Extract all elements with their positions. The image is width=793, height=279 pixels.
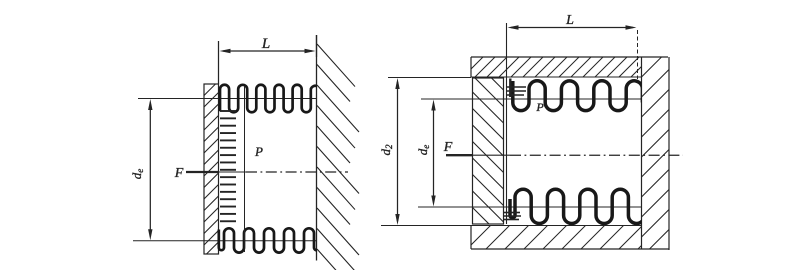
- left figure: fixed wall hatching (ground symbol): [317, 44, 359, 279]
- left figure: force F line onto plate: [186, 171, 219, 173]
- left figure: dimension line d_e with arrowheads: [149, 104, 151, 235]
- left figure: moving plate (piston) outline: [204, 84, 219, 254]
- right figure: housing top band inner (bottom) edge: [471, 76, 642, 78]
- svg-text:P: P: [254, 144, 263, 159]
- left figure: moving plate hatching: [0, 0, 570, 254]
- left figure: lower bellows corrugations: [219, 228, 318, 252]
- right figure: upper bellows clamp dashes: [506, 86, 526, 88]
- right figure: housing outer bottom edge: [471, 248, 669, 250]
- right figure: housing outer right edge: [668, 57, 670, 250]
- left figure: extension line at fixed wall edge (top overshoot): [316, 35, 318, 57]
- svg-text:L: L: [565, 13, 574, 28]
- right figure: d2 bottom extension line: [381, 225, 471, 227]
- right figure: housing right wall inner edge: [641, 57, 643, 249]
- right figure: upper bellows attachment stub: [509, 79, 511, 98]
- right figure: dimension line d_e with arrowheads: [433, 104, 435, 202]
- right figure: bottom band hatching: [220, 203, 703, 249]
- svg-text:F: F: [443, 140, 453, 155]
- right figure: moving plate (piston) outline: [473, 78, 504, 224]
- right figure: lower bellows clamp dashes: [504, 212, 520, 214]
- left figure: inner guide line (vertical): [244, 86, 246, 252]
- right figure: dimension line d2 with arrowheads: [397, 82, 399, 221]
- left figure: stack of lamellae dashes beside plate: [220, 110, 236, 112]
- left figure: upper extension / bellows mid line (d_e top): [138, 98, 317, 100]
- right figure: d2 top extension line: [388, 77, 471, 79]
- right figure: centre line (dash-dot): [473, 154, 510, 156]
- right figure: d_e bottom extension / bellows mid line: [418, 206, 642, 208]
- left figure: extension line from moving plate up to dimension L: [218, 41, 220, 84]
- right figure: housing bottom band left end: [470, 226, 472, 250]
- right figure: housing bottom band inner (top) edge: [471, 225, 642, 227]
- right figure: dimension line L with arrowheads: [511, 27, 633, 29]
- left figure: lower extension / bellows mid line (d_e bottom): [133, 240, 317, 242]
- right figure: upper bellows corrugations: [513, 81, 643, 111]
- left figure: dimension line L with arrowheads: [223, 50, 312, 52]
- left figure: centre line (dash-dot): [219, 171, 247, 173]
- right figure: moving plate hatching: [129, 78, 793, 279]
- right figure: dashed extension line at right end of L: [637, 30, 639, 79]
- right figure: housing top band left end: [470, 57, 472, 77]
- left figure: fixed wall left edge line: [316, 35, 318, 261]
- svg-text:L: L: [261, 36, 270, 52]
- left figure: upper bellows corrugations: [220, 85, 318, 113]
- right figure: force F line onto plate: [446, 154, 473, 156]
- right figure: lower bellows corrugations: [510, 189, 645, 223]
- right figure: bellows attachment line / L extension: [506, 23, 508, 224]
- right figure: d_e top extension / bellows mid line: [421, 98, 642, 100]
- right figure: right wall hatching: [210, 0, 793, 249]
- svg-text:P: P: [535, 100, 544, 114]
- svg-text:F: F: [174, 166, 184, 181]
- right figure: housing outer top edge: [471, 56, 668, 58]
- right figure: top band hatching: [247, 37, 683, 77]
